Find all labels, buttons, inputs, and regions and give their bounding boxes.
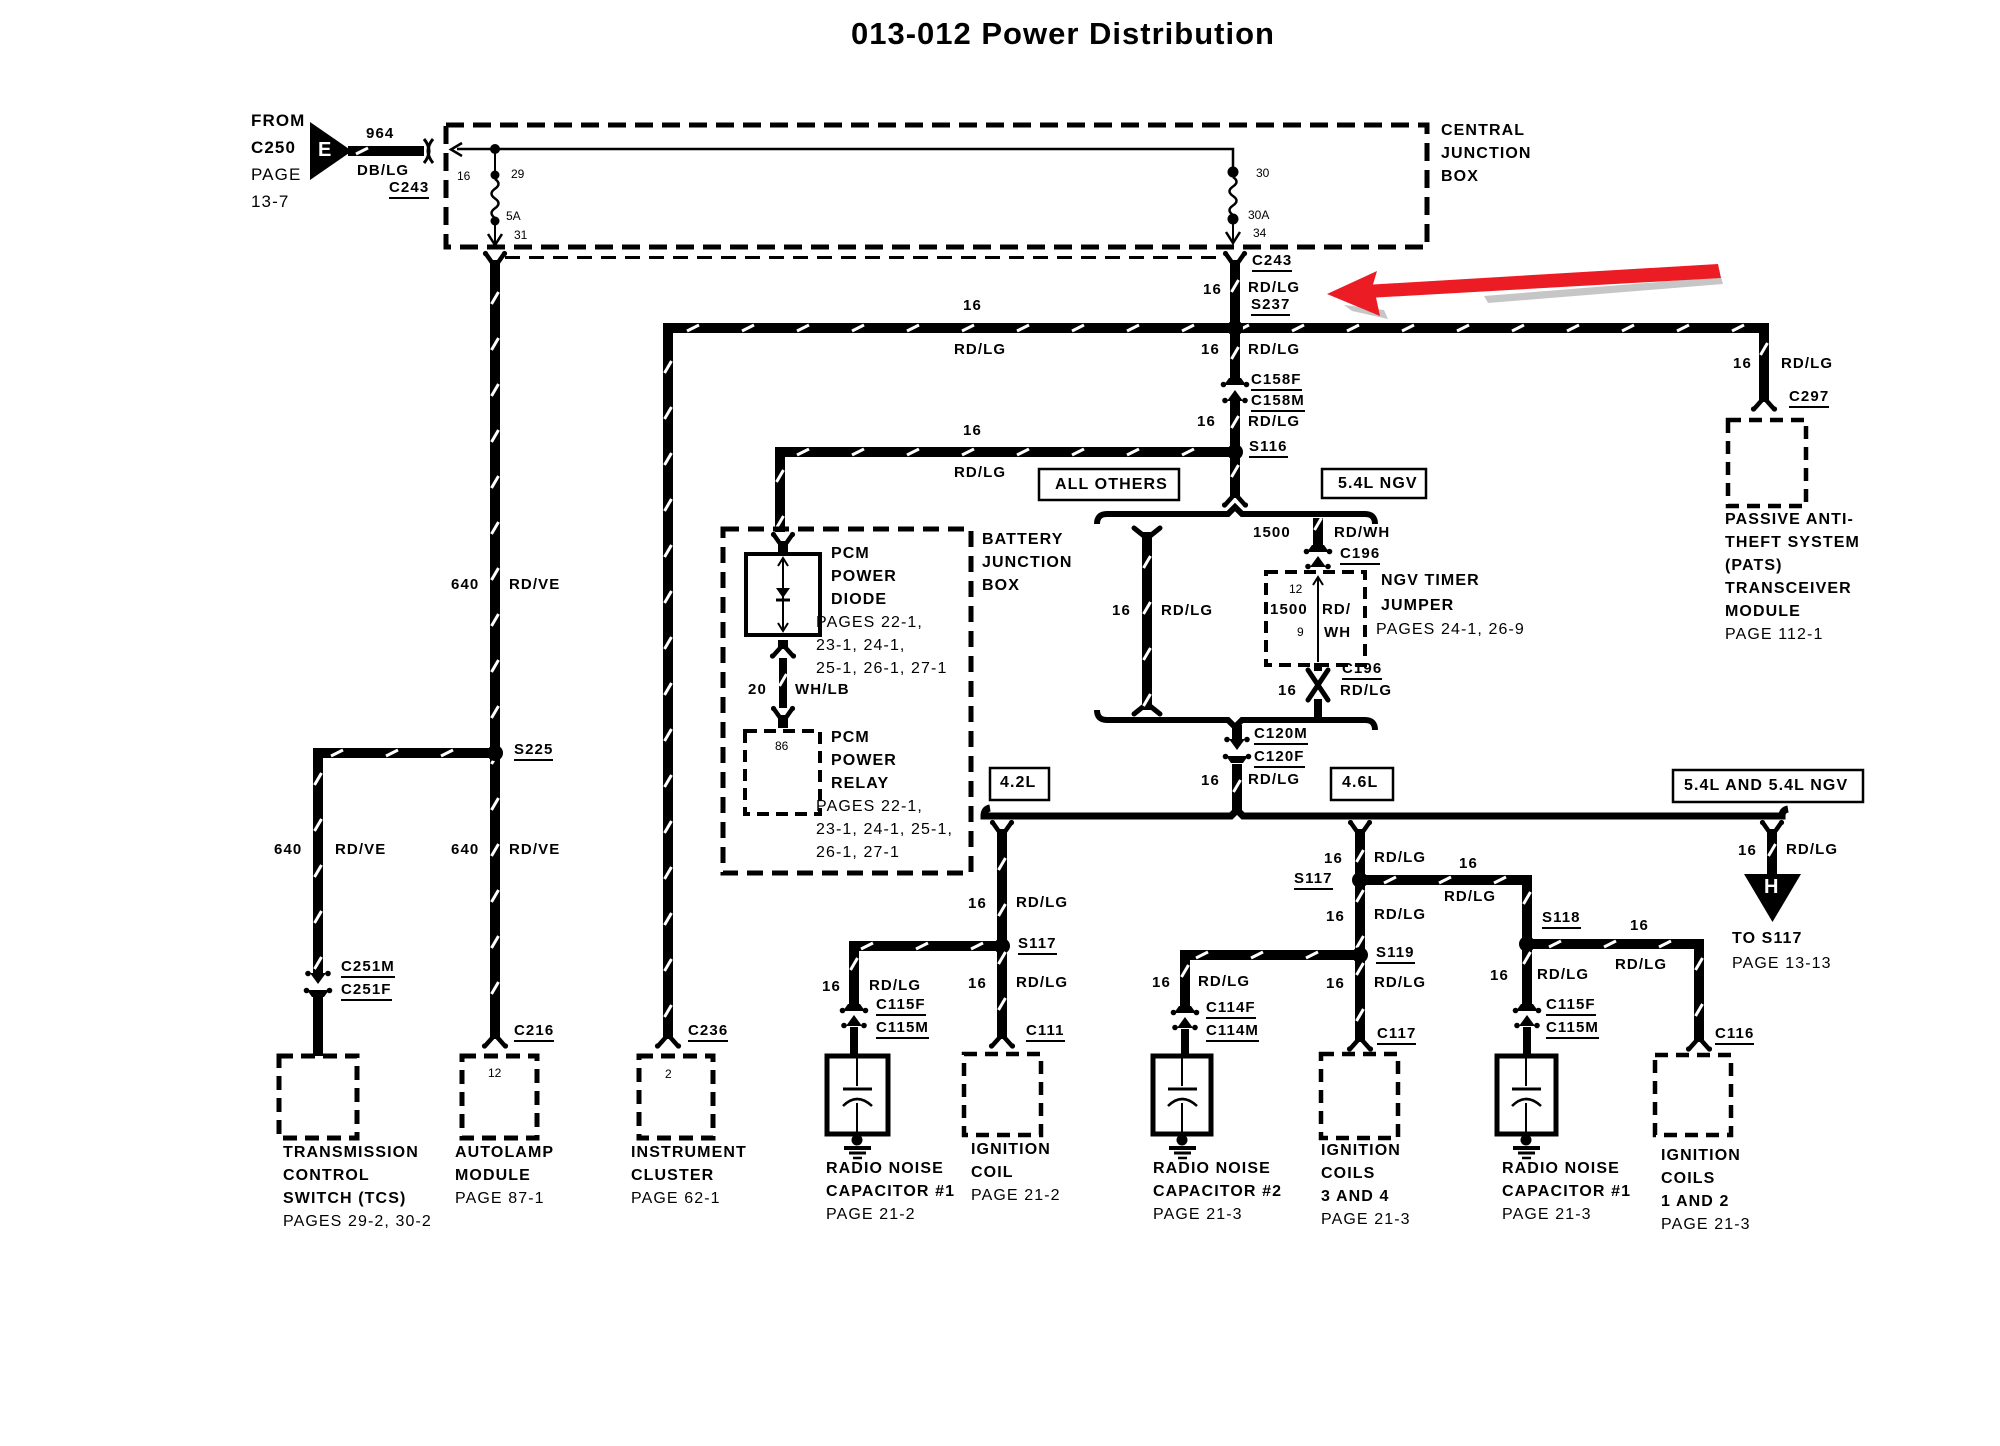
radio noise capacitor #1 box bbox=[827, 1056, 888, 1134]
label: 16 bbox=[1112, 602, 1131, 619]
label: 16 bbox=[1278, 682, 1297, 699]
connector C216 (wire end) bbox=[482, 1030, 508, 1049]
autolamp module box (dashed) bbox=[462, 1056, 537, 1138]
label: 16 bbox=[457, 169, 470, 183]
label: C115F bbox=[1546, 996, 1596, 1016]
label: IGNITION COILS 3 AND 4 PAGE 21-3 bbox=[1321, 1142, 1401, 1160]
label: C117 bbox=[1377, 1025, 1416, 1045]
label: 9 bbox=[1297, 625, 1304, 639]
label: TO S117 PAGE 13-13 bbox=[1732, 930, 1803, 948]
wire 16 RD/LG from S117 to C111 bbox=[997, 946, 1007, 1031]
label: 640 bbox=[274, 841, 302, 858]
label: RD/LG bbox=[1786, 841, 1838, 858]
connector (Y) at bus for TO S117 branch bbox=[1760, 820, 1784, 842]
label: RADIO NOISE CAPACITOR #1 PAGE 21-3 bbox=[1502, 1160, 1620, 1178]
label: C115M bbox=[876, 1019, 929, 1039]
connector (Y) at PCM power diode bbox=[771, 532, 795, 555]
label: C158M bbox=[1251, 392, 1305, 412]
connector C115F/C115M (left) bbox=[840, 1004, 869, 1028]
wire 16 RD/LG from S117 down to S119 bbox=[1355, 880, 1365, 955]
wire 16 RD/LG from S118 down to C115F (right) bbox=[1522, 944, 1532, 1004]
wire 16 RD/LG from bus to page arrow H bbox=[1767, 840, 1777, 876]
label: C158F bbox=[1251, 371, 1302, 391]
label: C120M bbox=[1254, 725, 1308, 745]
connector C297 (wire end) bbox=[1751, 393, 1777, 412]
node S225 bbox=[487, 745, 503, 761]
label: 20 bbox=[748, 681, 767, 698]
label: WH bbox=[1324, 624, 1351, 641]
PCM power relay box (dashed) bbox=[745, 731, 820, 814]
wire down-left from S237 bus to C236 bbox=[663, 333, 673, 1031]
label: INSTRUMENT CLUSTER PAGE 62-1 bbox=[631, 1144, 747, 1162]
label: 4.2L bbox=[1000, 774, 1036, 792]
label: RD/LG bbox=[1615, 956, 1667, 973]
label: 16 bbox=[1203, 281, 1222, 298]
label: C251F bbox=[341, 981, 392, 1001]
wire 16 RD/LG from bus to S117 (right) bbox=[1355, 840, 1365, 880]
wire 20 WH/LB bbox=[779, 658, 787, 708]
label: 16 bbox=[1326, 975, 1345, 992]
label: C243 bbox=[1252, 252, 1292, 272]
label: S118 bbox=[1542, 909, 1581, 929]
label: PCM POWER RELAY bbox=[831, 729, 870, 747]
label: RADIO NOISE CAPACITOR #1 PAGE 21-2 bbox=[826, 1160, 944, 1178]
wire 964 DB/LG from triangle E bbox=[348, 146, 424, 156]
connector symbol at C243 (wire entry to junction box) bbox=[424, 139, 433, 163]
wire 16 RD/LG from S116 bus into battery junction box bbox=[775, 452, 785, 532]
label: ALL OTHERS bbox=[1055, 476, 1168, 494]
label: RD/LG bbox=[1340, 682, 1392, 699]
label: H bbox=[1764, 876, 1780, 899]
fuse 29/5A (left, circuit 31) in junction box bbox=[488, 144, 502, 245]
label: 16 bbox=[1630, 917, 1649, 934]
label box ALL OTHERS bbox=[1039, 469, 1179, 500]
connector C158F/C158M bbox=[1221, 378, 1250, 403]
label: C216 bbox=[514, 1022, 554, 1042]
label: DB/LG bbox=[357, 162, 409, 179]
label box 4.2L bbox=[990, 768, 1049, 800]
jumper wire inside NGV timer jumper bbox=[1313, 577, 1323, 662]
label: C116 bbox=[1715, 1025, 1754, 1045]
central junction box (dashed) bbox=[446, 125, 1427, 247]
label: 16 bbox=[1201, 772, 1220, 789]
label: 1500 bbox=[1270, 601, 1308, 618]
label: S225 bbox=[514, 741, 553, 761]
engine distribution bus (horizontal) bbox=[984, 808, 1788, 816]
connector C196 (top) bbox=[1304, 545, 1333, 569]
label: RD/LG bbox=[1248, 771, 1300, 788]
wire 16 RD/LG from C243 to S237 bbox=[1230, 268, 1240, 323]
wire from S119 to radio noise capacitor 2 branch bbox=[1180, 950, 1360, 960]
label: RD/LG bbox=[1537, 966, 1589, 983]
wire 16 RD/LG from bus to S117 bbox=[997, 840, 1007, 946]
label: RD/LG bbox=[1444, 888, 1496, 905]
ignition coils 1 and 2 box (dashed) bbox=[1655, 1055, 1731, 1135]
label: RD/ bbox=[1322, 601, 1351, 618]
label: 5A bbox=[506, 209, 521, 223]
connector below diode (Y) bbox=[770, 640, 796, 659]
label box 5.4L AND 5.4L NGV bbox=[1673, 770, 1863, 802]
label: C115F bbox=[876, 996, 926, 1016]
node S119 bbox=[1352, 947, 1368, 963]
label: 16 bbox=[1738, 842, 1757, 859]
wire from corner down to C116 bbox=[1694, 944, 1704, 1036]
label: RD/LG bbox=[954, 341, 1006, 358]
label box 5.4L NGV bbox=[1322, 469, 1426, 498]
label: 16 bbox=[968, 975, 987, 992]
label: 5.4L AND 5.4L NGV bbox=[1684, 777, 1848, 795]
wire 16 RD/LG down to C115F bbox=[849, 946, 859, 1004]
label: C243 bbox=[389, 179, 429, 199]
connector C196 (bottom pair) bbox=[1308, 663, 1328, 720]
connector face line C243 (thin dashed) bbox=[505, 256, 1222, 259]
label: 12 bbox=[1289, 582, 1302, 596]
wire 16 RD/LG from S118 to C116 drop bbox=[1527, 939, 1704, 949]
node S237 bbox=[1227, 320, 1243, 336]
label: BATTERY JUNCTION BOX bbox=[982, 531, 1063, 549]
PCM power diode box bbox=[746, 554, 820, 635]
label: C196 bbox=[1340, 545, 1380, 565]
label: 16 bbox=[1152, 974, 1171, 991]
label: S119 bbox=[1376, 944, 1415, 964]
NGV timer jumper box (dashed) bbox=[1266, 572, 1365, 665]
wire 16 RD/LG from S117 to S118 drop bbox=[1360, 875, 1532, 885]
label: C251M bbox=[341, 958, 395, 978]
label: RD/WH bbox=[1334, 524, 1390, 541]
node S116 bbox=[1227, 444, 1243, 460]
label: RD/LG bbox=[954, 464, 1006, 481]
wire 640 RD/VE down to C251M bbox=[313, 753, 323, 974]
label: C114F bbox=[1206, 999, 1256, 1019]
label: 30 bbox=[1256, 166, 1269, 180]
wire 16 RD/LG (ALL OTHERS branch) bbox=[1134, 528, 1160, 714]
label: 34 bbox=[1253, 226, 1266, 240]
label: FROM C250 PAGE 13-7 bbox=[251, 111, 305, 131]
label: RD/LG bbox=[1374, 849, 1426, 866]
page connector triangle E bbox=[310, 122, 352, 180]
connector at engine split (Y) bbox=[1222, 489, 1248, 508]
connector (Y) at bus for S117/S119 branch bbox=[1348, 820, 1372, 842]
connector C116 (wire end) bbox=[1686, 1033, 1712, 1052]
label: RADIO NOISE CAPACITOR #2 PAGE 21-3 bbox=[1153, 1160, 1271, 1178]
label: 16 bbox=[968, 895, 987, 912]
label: PCM POWER DIODE bbox=[831, 545, 870, 563]
label: 16 bbox=[963, 297, 982, 314]
ground symbol (capacitor 2) bbox=[1169, 1135, 1196, 1159]
label: IGNITION COIL PAGE 21-2 bbox=[971, 1141, 1051, 1159]
label: 964 bbox=[366, 125, 394, 142]
label: CENTRAL JUNCTION BOX bbox=[1441, 122, 1525, 140]
label: RD/VE bbox=[509, 841, 560, 858]
instrument cluster box (dashed) bbox=[639, 1056, 713, 1138]
ignition coil box (dashed) bbox=[964, 1054, 1041, 1135]
label: 31 bbox=[514, 228, 527, 242]
label: IGNITION COILS 1 AND 2 PAGE 21-3 bbox=[1661, 1147, 1741, 1165]
label: C236 bbox=[688, 1022, 728, 1042]
label: RD/LG bbox=[1198, 973, 1250, 990]
label: 013-012 Power Distribution bbox=[851, 16, 1275, 52]
connector C117 (wire end) bbox=[1347, 1033, 1373, 1052]
node S117 (right) bbox=[1352, 872, 1368, 888]
label: RD/VE bbox=[335, 841, 386, 858]
label: 1500 bbox=[1253, 524, 1291, 541]
wire stub into radio noise capacitor 2 bbox=[1181, 1029, 1189, 1056]
wire from S116 down to engine split bbox=[1230, 457, 1240, 490]
label: S237 bbox=[1251, 296, 1290, 316]
label: RD/LG bbox=[1016, 894, 1068, 911]
connector (Y) at bus for C111 branch bbox=[990, 820, 1014, 842]
thin bus wire inside junction box bbox=[451, 143, 1233, 168]
label: PASSIVE ANTI-THEFT SYSTEM (PATS) TRANSCEIVER MODULE bbox=[1725, 511, 1854, 529]
label: 30A bbox=[1248, 208, 1269, 222]
label: 86 bbox=[775, 739, 788, 753]
connector C111 (wire end) bbox=[989, 1030, 1015, 1049]
ground symbol (capacitor 1 right) bbox=[1513, 1135, 1540, 1159]
battery junction box (dashed) bbox=[723, 529, 971, 873]
wire 16 RD/LG from S237 to C158F bbox=[1230, 333, 1240, 380]
label: C297 bbox=[1789, 388, 1829, 408]
label: RD/LG bbox=[1248, 279, 1300, 296]
wire stub into TCS bbox=[313, 997, 323, 1056]
label: 16 bbox=[822, 978, 841, 995]
label: 16 bbox=[1490, 967, 1509, 984]
label: 16 bbox=[1326, 908, 1345, 925]
wire 16 RD/LG down to C114F bbox=[1180, 955, 1190, 1006]
label: RD/LG bbox=[1248, 413, 1300, 430]
label: diode pages bbox=[816, 614, 923, 632]
label: 16 bbox=[1459, 855, 1478, 872]
connector C243 left half (Y) bbox=[483, 251, 507, 273]
label: 640 bbox=[451, 841, 479, 858]
wire stub into radio noise capacitor 1 (right) bbox=[1523, 1027, 1531, 1056]
wire from S225 to TCS branch bbox=[313, 748, 495, 758]
label: RD/LG bbox=[1248, 341, 1300, 358]
label: RD/VE bbox=[509, 576, 560, 593]
label: RD/LG bbox=[1374, 906, 1426, 923]
label: C196 bbox=[1342, 660, 1382, 680]
lower brace bus (engine merge) bbox=[1097, 710, 1375, 730]
label: 16 bbox=[1197, 413, 1216, 430]
wire from corner down to S118 bbox=[1522, 880, 1532, 944]
red callout arrow pointing at S237 bbox=[1327, 264, 1723, 319]
splice bus S237 (horizontal) bbox=[663, 323, 1769, 333]
label box 4.6L bbox=[1331, 768, 1393, 800]
label: 4.6L bbox=[1342, 774, 1378, 792]
label: 16 bbox=[1201, 341, 1220, 358]
connector C251M/C251F bbox=[304, 971, 333, 997]
connector C243 right half (Y) bbox=[1223, 251, 1247, 273]
label: 16 bbox=[1324, 850, 1343, 867]
ignition coils 3 and 4 box (dashed) bbox=[1321, 1054, 1398, 1138]
label: C115M bbox=[1546, 1019, 1599, 1039]
label: relay pages bbox=[816, 798, 923, 816]
connector above relay (Y) bbox=[771, 706, 795, 728]
wire 1500 RD/WH to C196 bbox=[1313, 518, 1323, 546]
label: 2 bbox=[665, 1067, 672, 1081]
wire 16 RD/LG to C297 bbox=[1759, 333, 1769, 394]
label: PAGES 24-1, 26-9 bbox=[1376, 621, 1525, 639]
wire stub into radio noise capacitor 1 bbox=[850, 1027, 858, 1056]
transmission control switch box (dashed) bbox=[279, 1056, 357, 1138]
upper brace bus (engine split) bbox=[1097, 507, 1375, 524]
radio noise capacitor #1 (right) box bbox=[1497, 1056, 1556, 1134]
label: RD/LG bbox=[1016, 974, 1068, 991]
label: TRANSMISSION CONTROL SWITCH (TCS) PAGES bbox=[283, 1144, 419, 1162]
wire 16 RD/LG from C158M to S116 bbox=[1230, 400, 1240, 447]
connector C115F/C115M (right) bbox=[1513, 1004, 1542, 1028]
node S118 bbox=[1519, 936, 1535, 952]
label: RD/LG bbox=[1161, 602, 1213, 619]
label: S117 bbox=[1018, 935, 1057, 955]
label: AUTOLAMP MODULE PAGE 87-1 bbox=[455, 1144, 554, 1162]
wire RD/VE from C243 down to C216 bbox=[490, 268, 500, 1031]
page connector triangle H bbox=[1744, 874, 1801, 922]
label: 5.4L NGV bbox=[1338, 475, 1418, 493]
label: S117 bbox=[1294, 870, 1333, 890]
label: 640 bbox=[451, 576, 479, 593]
label: 16 bbox=[1733, 355, 1752, 372]
connector C120M/C120F bbox=[1223, 725, 1252, 774]
PATS transceiver module box (dashed) bbox=[1728, 420, 1806, 506]
ground symbol (capacitor 1) bbox=[844, 1135, 871, 1159]
label: NGV TIMER JUMPER bbox=[1381, 572, 1480, 590]
label: E bbox=[318, 139, 332, 162]
label: S116 bbox=[1249, 438, 1288, 458]
splice bus S116 (horizontal) bbox=[775, 447, 1240, 457]
label: 29 bbox=[511, 167, 524, 181]
label: RD/LG bbox=[1781, 355, 1833, 372]
label: WH/LB bbox=[795, 681, 850, 698]
node S117 (left) bbox=[994, 938, 1010, 954]
wire from S117 to radio noise capacitor 1 branch bbox=[849, 941, 1002, 951]
connector C114F/C114M bbox=[1171, 1006, 1200, 1030]
label: RD/LG bbox=[869, 977, 921, 994]
label: RD/LG bbox=[1374, 974, 1426, 991]
fuse 30/30A (right, circuit 34) in junction box bbox=[1226, 167, 1240, 244]
connector C236 (wire end) bbox=[655, 1030, 681, 1049]
wire 16 RD/LG from C120F to engine bus bbox=[1232, 772, 1242, 813]
label: 16 bbox=[963, 422, 982, 439]
label: C114M bbox=[1206, 1022, 1259, 1042]
label: 12 bbox=[488, 1066, 501, 1080]
radio noise capacitor #2 box bbox=[1153, 1056, 1211, 1134]
label: C120F bbox=[1254, 748, 1305, 768]
label: C111 bbox=[1026, 1022, 1065, 1042]
wire 16 RD/LG from S119 to C117 bbox=[1355, 955, 1365, 1036]
